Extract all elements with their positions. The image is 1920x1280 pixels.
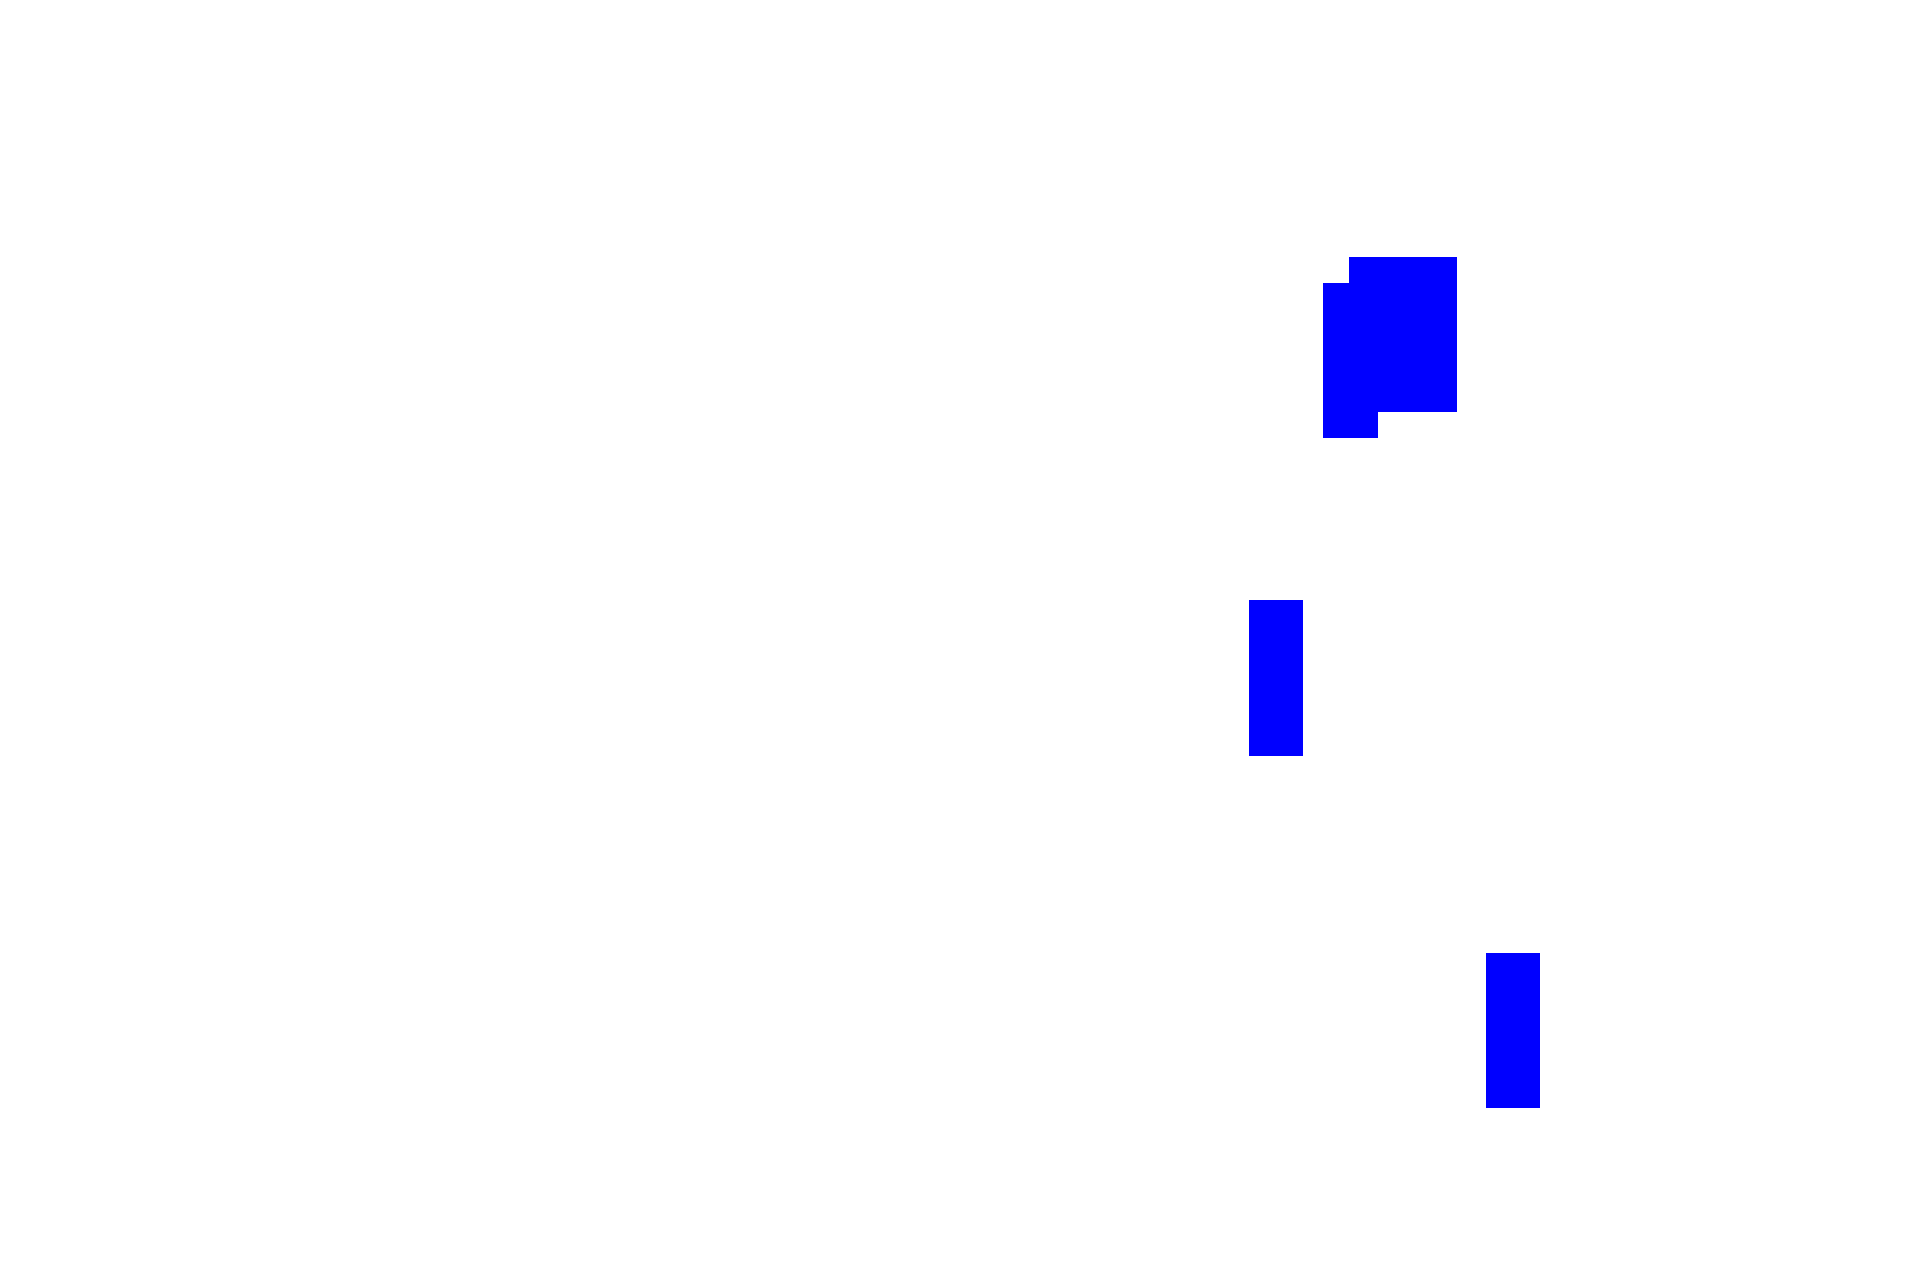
building footprint C (vertical bar, middle) (1249, 600, 1303, 756)
building footprint D (vertical bar, lower right) (1486, 953, 1540, 1108)
building footprint B (lower-left rectangle of blob) (1323, 283, 1378, 438)
building footprint A (upper-right rectangle of blob) (1349, 257, 1457, 412)
